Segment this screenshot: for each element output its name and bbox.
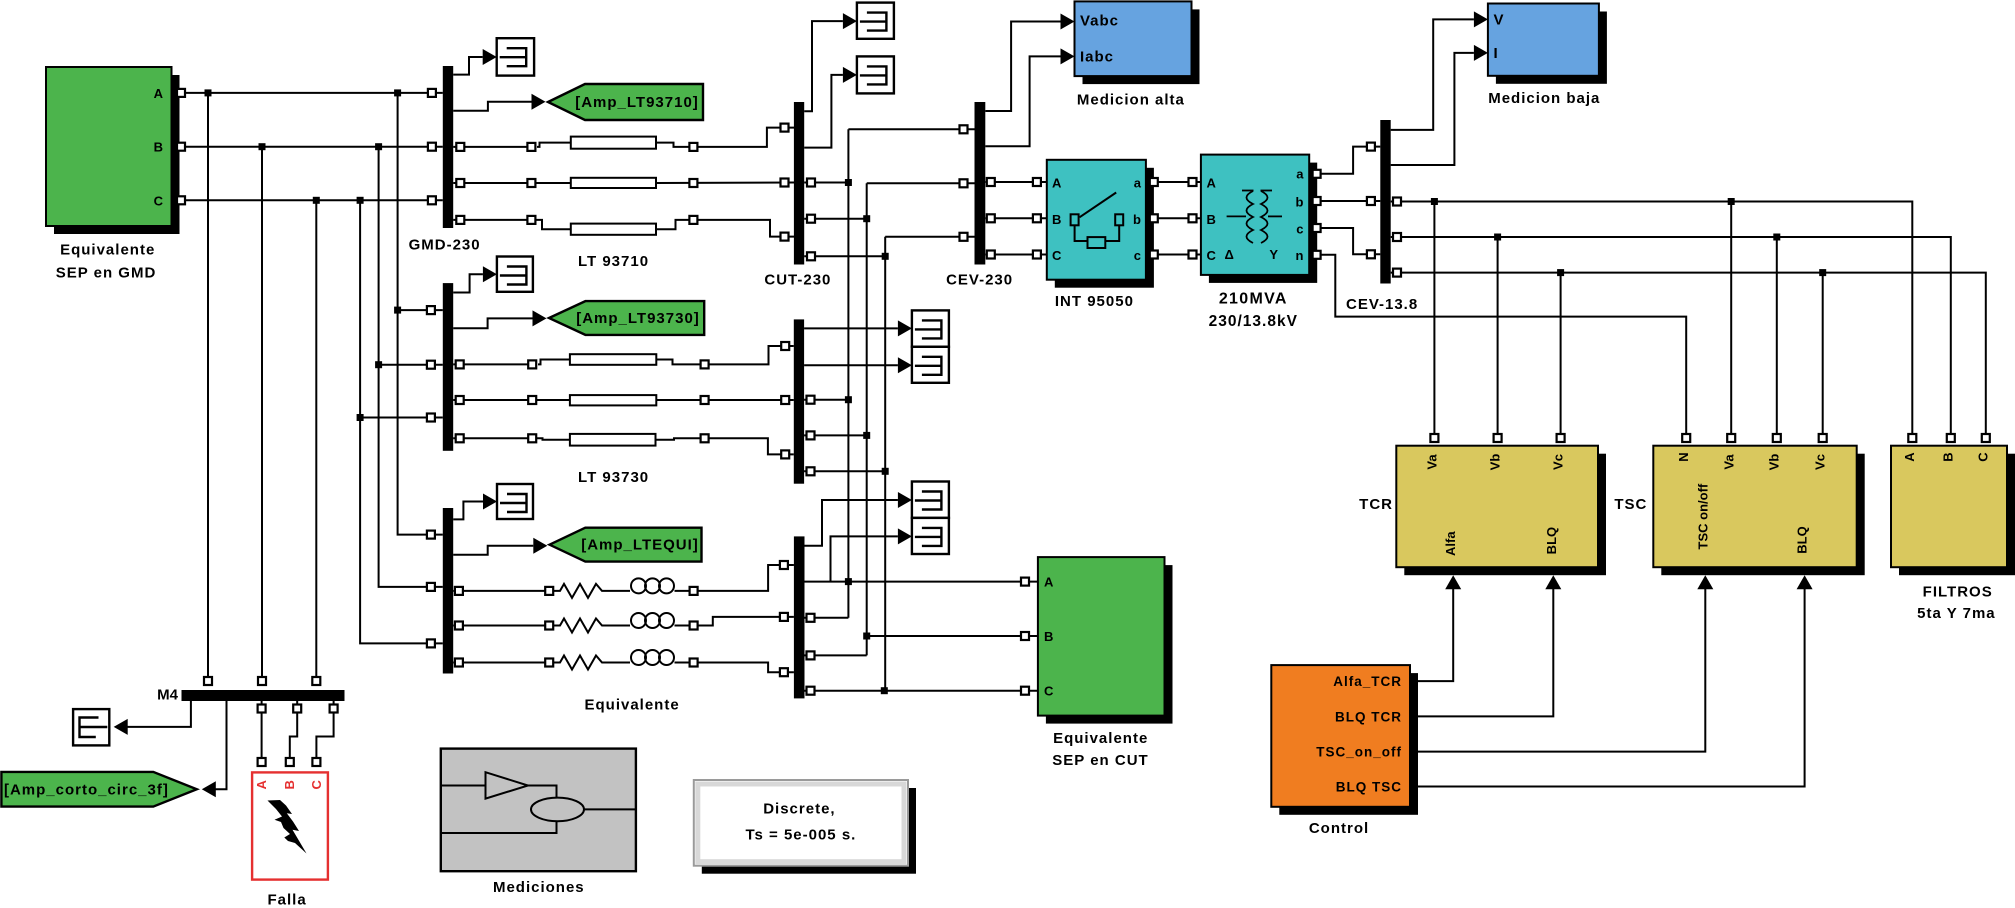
bus GMD-230	[409, 66, 481, 253]
wire bus2 to scope S8	[453, 266, 497, 292]
wire row A to block Equivalente SEP en CUT	[805, 578, 1038, 586]
wire bus3 to scope S9	[453, 494, 497, 520]
svg-text:B: B	[1044, 629, 1053, 644]
svg-text:Mediciones: Mediciones	[493, 879, 585, 896]
wire row C to block Equivalente SEP en CUT	[805, 687, 1038, 695]
svg-text:Ts = 5e-005 s.: Ts = 5e-005 s.	[745, 826, 856, 843]
wire INT c to transformer	[1146, 251, 1201, 259]
source block Equivalente SEP en GMD	[46, 67, 180, 282]
wire GMD-230 to tag Amp_LT93710	[453, 94, 545, 111]
transmission line LT 93730 phase b	[453, 395, 794, 405]
svg-text:Equivalente: Equivalente	[1053, 730, 1148, 747]
wire transformer n to TSC N	[1309, 251, 1690, 442]
scope S8	[497, 257, 533, 292]
scope S4	[912, 310, 949, 346]
svg-text:A: A	[254, 779, 269, 789]
svg-text:A: A	[1902, 452, 1917, 462]
wire GMD-230 to scope S1	[453, 49, 497, 75]
svg-text:Equivalente: Equivalente	[60, 242, 155, 259]
scope S3	[857, 56, 894, 93]
bus CUT-230	[764, 102, 831, 289]
svg-text:TSC on/off: TSC on/off	[1696, 483, 1711, 549]
wire M4 to display block	[114, 701, 191, 735]
svg-text:M4: M4	[157, 687, 178, 704]
block TCR	[1359, 446, 1606, 576]
svg-text:230/13.8kV: 230/13.8kV	[1209, 313, 1298, 330]
block Medicion baja	[1488, 4, 1607, 107]
svg-text:A: A	[1052, 176, 1062, 191]
svg-text:V: V	[1494, 11, 1504, 28]
wire bus2R to scope S4	[804, 320, 912, 336]
svg-text:LT 93710: LT 93710	[578, 253, 649, 270]
svg-text:b: b	[1133, 212, 1141, 227]
wire phase B drop to feeder buses	[375, 147, 443, 591]
wire Control TSC_on_off to TSC	[1412, 575, 1713, 751]
RL branch Equivalente phase c	[453, 650, 697, 670]
svg-text:a: a	[1296, 167, 1304, 182]
block Control	[1271, 665, 1418, 837]
svg-text:Equivalente: Equivalente	[584, 696, 679, 713]
block Discrete powergui	[694, 780, 916, 874]
transformer block 210MVA 230/13.8kV	[1201, 155, 1317, 330]
wire phase A net CUT-230 to CEV-230 and CUT loads	[804, 125, 974, 622]
wire CUT-230 to scope S2	[804, 13, 857, 111]
wire drop TSC Va	[1727, 202, 1735, 443]
wire phase A drop to bus M4	[204, 93, 212, 685]
svg-text:TCR: TCR	[1359, 496, 1393, 513]
svg-text:Vc: Vc	[1812, 454, 1827, 470]
svg-text:LT 93730: LT 93730	[578, 469, 649, 486]
wire transformer b to CEV-13.8	[1309, 197, 1380, 205]
svg-text:Alfa: Alfa	[1443, 531, 1458, 556]
goto tag Amp_LT93730	[549, 301, 704, 335]
svg-text:INT 95050: INT 95050	[1055, 293, 1134, 310]
wire phase C drop to bus M4	[312, 200, 320, 685]
svg-text:B: B	[1207, 212, 1216, 227]
svg-text:Va: Va	[1722, 454, 1737, 470]
wire phase B drop to bus M4	[258, 147, 266, 685]
svg-text:Vabc: Vabc	[1080, 13, 1119, 30]
display block E	[73, 709, 109, 745]
svg-text:N: N	[1676, 452, 1691, 461]
svg-text:c: c	[1134, 248, 1141, 263]
svg-text:C: C	[1052, 248, 1062, 263]
wire drop TCR Va	[1430, 202, 1438, 443]
svg-text:[Amp_corto_circ_3f]: [Amp_corto_circ_3f]	[4, 781, 169, 798]
svg-text:Medicion alta: Medicion alta	[1077, 92, 1185, 109]
svg-text:Vb: Vb	[1767, 454, 1782, 471]
scope S7	[912, 518, 949, 554]
wire CEV-230 c to INT 95050	[985, 251, 1047, 259]
wire phase C drop to feeder buses	[357, 200, 443, 647]
wire row A to scope S7	[831, 528, 912, 581]
wire transformer a to CEV-13.8	[1309, 143, 1380, 178]
transmission line LT 93710 phase b	[453, 178, 794, 188]
wire CEV-13.8 to Medicion baja I	[1391, 45, 1488, 165]
svg-text:TSC: TSC	[1614, 496, 1647, 513]
scope S1	[497, 38, 534, 75]
wire bus2R to scope S5	[804, 357, 912, 373]
svg-text:Va: Va	[1425, 454, 1440, 470]
scope S2	[857, 3, 894, 39]
svg-text:C: C	[154, 193, 164, 208]
bus GMD feeder 3	[443, 508, 453, 674]
block TSC	[1614, 446, 1864, 576]
wire CEV-13.8 to Medicion baja V	[1391, 11, 1488, 129]
svg-text:B: B	[1052, 212, 1061, 227]
svg-text:I: I	[1494, 45, 1498, 62]
svg-text:B: B	[282, 780, 297, 789]
wire INT b to transformer	[1146, 214, 1201, 222]
svg-text:Δ: Δ	[1225, 247, 1235, 262]
svg-text:Control: Control	[1309, 820, 1369, 837]
block Mediciones	[441, 749, 636, 896]
wire CUT-230 to scope S3	[804, 67, 857, 148]
svg-text:FILTROS: FILTROS	[1923, 584, 1993, 601]
bus CUT feeder 2	[794, 319, 804, 483]
wire Control BLQ TSC to TSC	[1412, 575, 1813, 786]
wire RL b to bus3R	[697, 617, 794, 626]
svg-text:B: B	[154, 140, 163, 155]
svg-text:BLQ: BLQ	[1795, 526, 1810, 553]
wire phase B net CUT-230 to CEV-230 and CUT loads	[804, 179, 974, 659]
wire CEV-230 to Medicion alta Iabc	[985, 48, 1074, 146]
bus CEV-13.8	[1346, 120, 1418, 313]
svg-text:BLQ: BLQ	[1544, 527, 1559, 554]
wire RL c to bus3R	[697, 663, 794, 673]
wire phase B source to bus GMD-230	[172, 143, 443, 151]
breaker block INT 95050	[1047, 160, 1154, 310]
svg-text:[Amp_LT93730]: [Amp_LT93730]	[576, 310, 700, 327]
wire Control BLQ TCR to TCR	[1412, 575, 1561, 716]
wire CEV-230 to Medicion alta Vabc	[985, 14, 1074, 112]
goto tag Amp_LTEQUI	[550, 528, 702, 562]
svg-text:GMD-230: GMD-230	[409, 236, 481, 253]
svg-text:Vb: Vb	[1488, 454, 1503, 471]
wire M4 b to Falla	[286, 701, 301, 766]
scope S5	[912, 347, 949, 383]
wire rail phase b CEV-13.8 to filters	[1391, 233, 1955, 442]
svg-text:c: c	[1296, 222, 1303, 237]
svg-text:SEP en GMD: SEP en GMD	[56, 265, 157, 282]
block Equivalente SEP en CUT	[1038, 557, 1173, 769]
wire drop TSC Vb	[1773, 237, 1781, 442]
wire drop TSC Vc	[1819, 273, 1827, 442]
svg-text:Iabc: Iabc	[1080, 48, 1114, 65]
transmission line LT 93730 phase a	[453, 342, 794, 368]
wire bus3R to scope S6	[805, 492, 912, 546]
RL branch Equivalente phase b	[453, 613, 697, 633]
from tag Amp_corto_circ_3f	[1, 772, 196, 807]
svg-text:C: C	[1207, 248, 1217, 263]
bus CEV-230	[946, 102, 1013, 289]
wire rail phase c CEV-13.8 to filters	[1391, 269, 1990, 442]
bus CUT feeder 3	[794, 536, 805, 698]
svg-text:A: A	[154, 86, 164, 101]
svg-text:a: a	[1134, 176, 1142, 191]
wire row B to block Equivalente SEP en CUT	[867, 632, 1038, 640]
svg-text:C: C	[1975, 452, 1990, 462]
wire bus3 to tag Amp_LTEQUI	[453, 538, 547, 555]
svg-text:C: C	[1044, 684, 1054, 699]
svg-text:CUT-230: CUT-230	[764, 272, 831, 289]
svg-text:Alfa_TCR: Alfa_TCR	[1333, 674, 1402, 689]
svg-text:CEV-230: CEV-230	[946, 272, 1013, 289]
wire drop TCR Vb	[1494, 237, 1502, 442]
wire M4 c to Falla	[312, 701, 337, 766]
wire M4 a to Falla	[258, 701, 266, 766]
svg-text:TSC_on_off: TSC_on_off	[1316, 745, 1402, 760]
svg-text:Medicion baja: Medicion baja	[1488, 90, 1600, 107]
bus M4	[157, 687, 344, 704]
svg-text:A: A	[1207, 176, 1217, 191]
svg-text:BLQ TSC: BLQ TSC	[1336, 780, 1402, 795]
wire CEV-230 a to INT 95050	[985, 178, 1047, 186]
wire INT a to transformer	[1146, 178, 1201, 186]
wire rail phase a CEV-13.8 to filters	[1391, 198, 1917, 443]
svg-text:A: A	[1044, 575, 1054, 590]
svg-text:5ta Y 7ma: 5ta Y 7ma	[1917, 605, 1996, 622]
svg-text:Discrete,: Discrete,	[763, 800, 835, 817]
transmission line LT 93730 phase c	[453, 434, 794, 459]
transmission line LT 93710 phase c	[453, 216, 794, 241]
svg-text:CEV-13.8: CEV-13.8	[1346, 296, 1418, 313]
wire bus2 to tag Amp_LT93730	[453, 310, 546, 328]
svg-text:n: n	[1296, 248, 1304, 263]
svg-text:SEP en CUT: SEP en CUT	[1052, 752, 1148, 769]
wire phase C net CUT-230 to CEV-230 and CUT loads	[804, 233, 974, 694]
wire M4 to tag Amp_corto_circ_3f	[202, 701, 227, 797]
svg-text:BLQ TCR: BLQ TCR	[1335, 709, 1402, 724]
wire CEV-230 b to INT 95050	[985, 214, 1047, 222]
svg-text:B: B	[1940, 452, 1955, 461]
scope S9	[497, 484, 533, 519]
svg-text:[Amp_LT93710]: [Amp_LT93710]	[575, 94, 699, 111]
wire drop TCR Vc	[1557, 273, 1565, 442]
svg-text:Y: Y	[1269, 247, 1278, 262]
svg-text:[Amp_LTEQUI]: [Amp_LTEQUI]	[581, 537, 699, 554]
wire Control Alfa_TCR to TCR	[1412, 575, 1461, 681]
transmission line LT 93710 phase a	[453, 124, 794, 151]
wire transformer c to CEV-13.8	[1309, 224, 1380, 258]
wire RL a to bus3R	[697, 565, 794, 591]
wire phase A source to bus GMD-230	[172, 89, 443, 97]
block FILTROS 5ta Y 7ma	[1891, 446, 2015, 622]
wire phase A drop to feeder buses	[394, 93, 443, 539]
block Medicion alta	[1075, 1, 1200, 108]
RL branch Equivalente phase a	[453, 578, 697, 598]
svg-text:Vc: Vc	[1551, 454, 1566, 470]
svg-text:C: C	[309, 779, 324, 789]
scope S6	[912, 482, 949, 518]
svg-text:210MVA: 210MVA	[1219, 290, 1288, 307]
wire phase C source to bus GMD-230	[172, 196, 443, 204]
svg-text:Falla: Falla	[268, 892, 307, 908]
fault block Falla	[252, 772, 328, 908]
bus GMD feeder 2	[443, 283, 453, 451]
svg-text:b: b	[1296, 195, 1304, 210]
goto tag Amp_LT93710	[548, 84, 703, 120]
